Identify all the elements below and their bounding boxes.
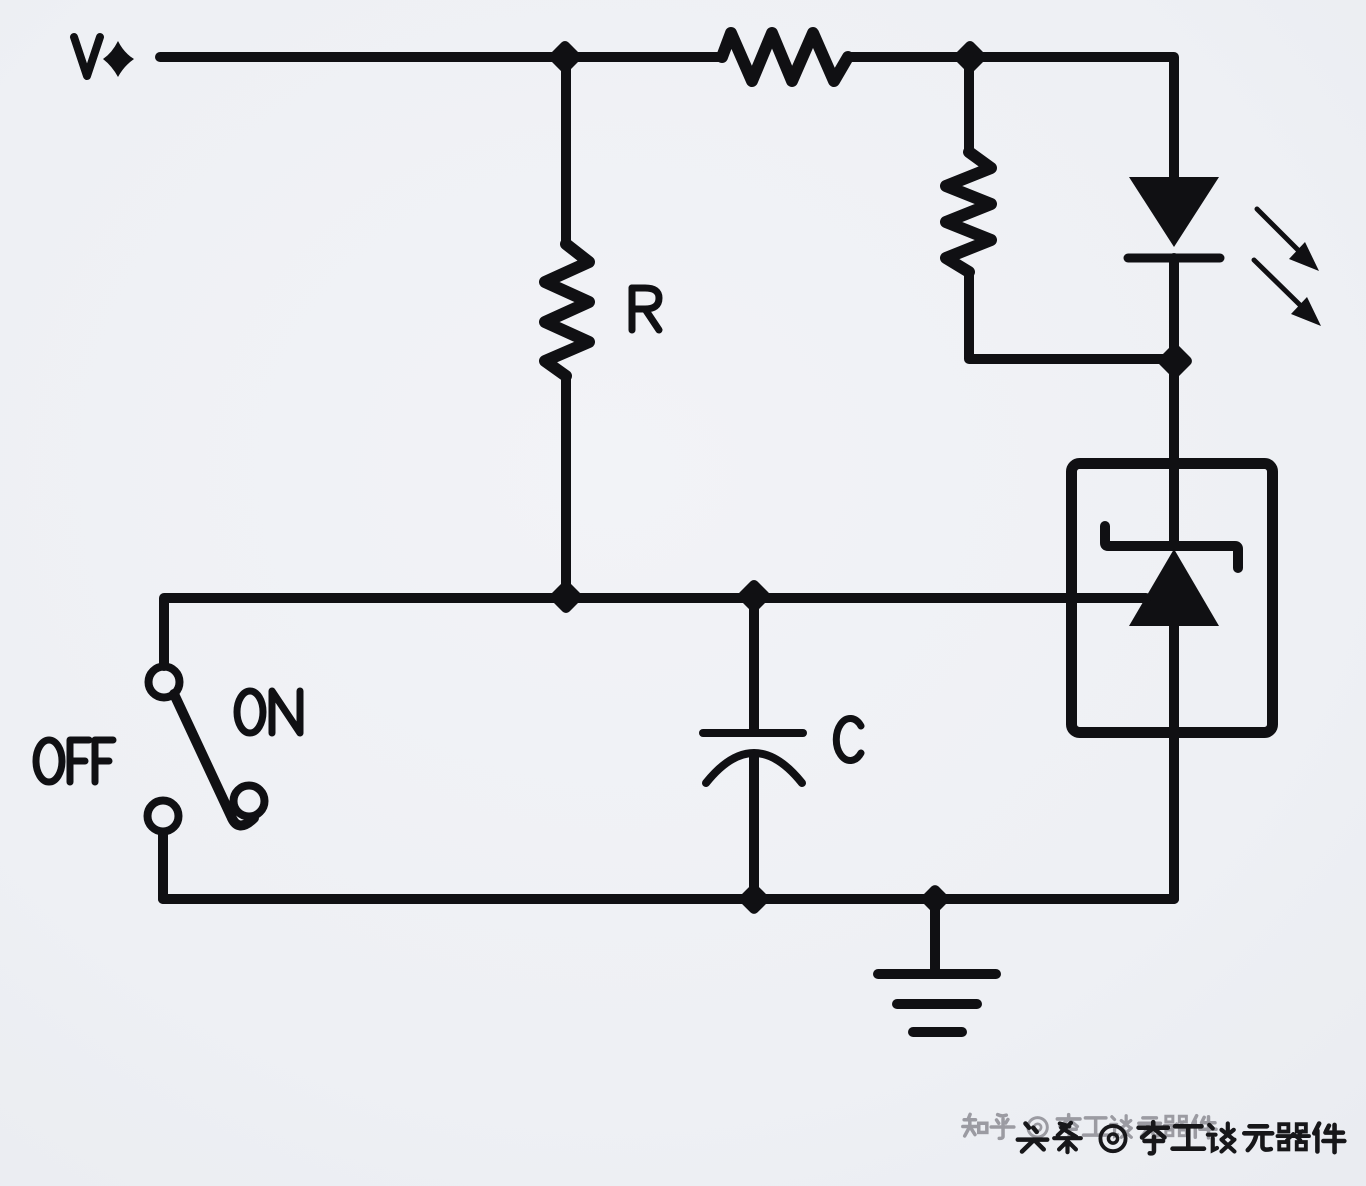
wire top rail left [160, 52, 722, 62]
wire cathode inside box to bottom rail [1169, 626, 1179, 899]
ground bar 2 [897, 999, 977, 1009]
wire top rail right [848, 57, 1174, 180]
wire R bottom lead [561, 376, 571, 598]
wire anode inside box [1169, 468, 1179, 546]
wire OFF contact to bottom rail [158, 833, 168, 899]
switch S1 OFF contact [148, 801, 179, 832]
resistor R2 vertical [946, 152, 991, 272]
junction node top-left [547, 39, 583, 75]
ground bar 1 [878, 969, 996, 979]
mid rail wire (gate net) [164, 598, 1146, 666]
junction node top-right [952, 39, 988, 75]
junction node LED/R2 [1156, 342, 1194, 380]
junction node bottom C [737, 882, 771, 916]
V+ plus star [103, 41, 134, 77]
capacitor C bottom lead [749, 757, 759, 899]
switch S1 arm [174, 694, 254, 826]
wire R top lead [561, 57, 571, 244]
switch S1 pole contact [149, 667, 180, 698]
ground stub [930, 899, 940, 970]
label OFF [36, 740, 113, 782]
light arrow 1 [1257, 209, 1319, 271]
label C [836, 719, 861, 761]
resistor R vertical [545, 244, 589, 376]
thyristor triangle [1129, 549, 1219, 626]
ground bar 3 [913, 1027, 962, 1037]
resistor R1 top horizontal [722, 33, 848, 81]
wire LED cathode lead [1169, 258, 1179, 361]
flasher IC box U1 [1072, 464, 1273, 733]
LED D1 cathode bar [1128, 254, 1220, 263]
junction node mid R [548, 579, 584, 615]
capacitor C top plate [703, 729, 803, 737]
wire node to flasher box [1169, 361, 1179, 470]
switch S1 ON contact [234, 786, 265, 817]
label R [632, 288, 659, 330]
thyristor gate/trigger bar [1105, 526, 1238, 568]
capacitor C bottom plate [706, 753, 802, 783]
capacitor C top lead [749, 598, 759, 731]
bottom rail wire [163, 894, 1174, 904]
junction node mid C [736, 578, 772, 614]
wire R2 bottom lead [969, 272, 1175, 359]
node V+ label [74, 37, 100, 76]
watermark toutiao dark [1018, 1122, 1345, 1153]
LED D1 triangle [1129, 177, 1219, 247]
junction node bottom GND [919, 883, 951, 915]
wire R2 top lead [964, 57, 974, 152]
watermark zhihu gray [963, 1114, 1216, 1138]
light arrow 2 [1254, 260, 1321, 326]
label ON [237, 691, 300, 733]
